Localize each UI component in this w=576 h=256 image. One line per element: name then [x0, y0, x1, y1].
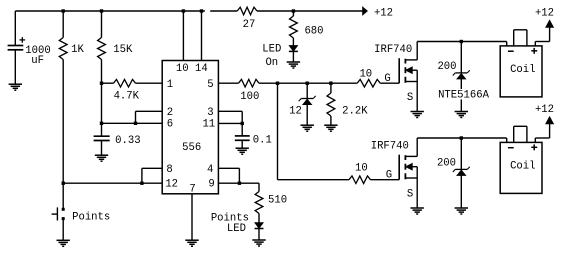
svg-text:7: 7: [189, 183, 195, 195]
junction pin2/pin6 tie: [134, 122, 137, 125]
svg-text:4.7K: 4.7K: [114, 91, 140, 103]
wire +12 supply rail: [15, 10, 363, 12]
junction pin6 / 0.33: [100, 122, 103, 125]
junction on rail at 15K: [100, 9, 103, 12]
wire 4.7K left: [102, 82, 114, 84]
junction on rail at pin10: [182, 9, 185, 12]
svg-text:2.2K: 2.2K: [342, 106, 368, 118]
wire coil 2 + to +12: [535, 124, 549, 143]
junction gate node / zener 12: [306, 82, 309, 85]
svg-text:S: S: [407, 92, 413, 104]
resistor 2.2K: [327, 93, 335, 116]
diode points LED: [255, 223, 264, 229]
wire switch to ground: [62, 220, 64, 240]
resistor 10 (top gate): [357, 79, 380, 87]
resistor 27 (supply): [237, 7, 257, 15]
capacitor 1000uF plus sign: [20, 37, 26, 43]
junction on rail at pin14: [200, 9, 203, 12]
junction drain node top: [460, 40, 463, 43]
svg-text:LED: LED: [262, 44, 281, 56]
svg-text:1K: 1K: [71, 44, 84, 56]
wire Q2 drain: [416, 138, 418, 156]
svg-text:+12: +12: [374, 7, 393, 19]
transistor Q1 IRF740: [399, 58, 417, 83]
junction gate node / lower gate: [276, 82, 279, 85]
wire rail to R 1K: [62, 11, 64, 38]
wire pin 3 strap: [218, 111, 242, 136]
wire points node to switch: [62, 183, 64, 208]
junction drain node lower: [460, 136, 463, 139]
switch points contact lower: [62, 217, 65, 220]
resistor 680: [290, 16, 298, 38]
ground (C1): [9, 84, 22, 90]
wire rail to R 15K: [101, 11, 103, 38]
wire Q1 drain to coil 1: [417, 42, 507, 46]
svg-text:+12: +12: [535, 104, 554, 116]
ground (pin 7): [185, 240, 198, 246]
wire zener 12 to ground: [306, 105, 308, 126]
resistor 510: [255, 192, 263, 214]
ground (LED On): [287, 62, 300, 68]
coil 2 (ignition coil): [500, 126, 542, 193]
svg-text:IRF740: IRF740: [371, 141, 409, 153]
ground (zener 12): [301, 125, 314, 131]
wire pin 14 supply: [201, 11, 203, 61]
wire zener 200 to ground (lower): [460, 175, 462, 208]
svg-text:510: 510: [268, 195, 287, 207]
wire 1K to points node: [62, 60, 64, 184]
svg-text:On: On: [265, 57, 278, 69]
svg-text:Coil: Coil: [510, 64, 535, 76]
svg-text:S: S: [407, 188, 413, 200]
resistor 4.7K: [114, 79, 136, 87]
svg-text:4: 4: [207, 164, 213, 176]
resistor 10 (lower gate): [349, 176, 371, 184]
svg-text:Coil: Coil: [510, 160, 535, 172]
svg-text:5: 5: [207, 79, 213, 91]
wire pin 6: [102, 122, 163, 124]
diode LED On: [289, 46, 298, 52]
ground (Q1 source): [411, 112, 424, 118]
resistor 15K: [98, 38, 106, 60]
svg-text:680: 680: [304, 26, 323, 38]
wire 4.7K to pin 1: [136, 82, 163, 84]
svg-text:G: G: [384, 73, 390, 85]
switch points actuator: [52, 207, 58, 220]
ground (C 0.1): [236, 148, 249, 154]
wire pin 12 to points node: [63, 182, 162, 184]
svg-text:12: 12: [165, 179, 178, 191]
wire node to zener 12: [306, 83, 308, 98]
wire pin 5 out: [218, 82, 238, 84]
svg-text:3: 3: [207, 107, 213, 119]
capacitor 0.33: [94, 136, 110, 140]
node +12 arrow (coil 1): [546, 20, 553, 27]
wire left rail to C1: [14, 11, 16, 46]
wire rail to R 680: [292, 11, 294, 16]
svg-text:100: 100: [240, 91, 259, 103]
resistor 1K: [59, 38, 67, 60]
wire gate node: [259, 82, 357, 84]
zener diode 200 (lower): [453, 167, 470, 176]
svg-text:15K: 15K: [113, 44, 133, 56]
wire drain to zener 200 (top): [460, 42, 462, 73]
wire Q1 drain: [416, 42, 418, 60]
wire C 0.1 to ground: [241, 140, 243, 148]
junction gate node / 2.2K: [329, 82, 332, 85]
wire 10 to gate: [380, 82, 399, 84]
svg-text:1: 1: [167, 79, 173, 91]
svg-text:12: 12: [289, 106, 302, 118]
wire zener 200 to ground (top): [460, 79, 462, 112]
wire pin 2 strap: [136, 111, 163, 123]
capacitor 0.1: [235, 136, 250, 140]
node +12 arrow: [363, 7, 368, 15]
svg-text:200: 200: [437, 61, 456, 73]
wire pin 10 supply: [182, 11, 184, 61]
svg-text:Points: Points: [72, 211, 110, 223]
wire 2.2K to ground: [330, 116, 332, 125]
wire 15K down to pin6 node: [101, 60, 103, 124]
svg-text:G: G: [386, 170, 392, 182]
svg-text:uF: uF: [31, 55, 44, 67]
svg-text:IRF740: IRF740: [374, 44, 412, 56]
wire 10 to gate (lower): [371, 179, 400, 181]
node +12 arrow (coil 2): [546, 117, 553, 124]
wire pin 9: [218, 183, 259, 191]
junction on rail at 1K: [62, 9, 65, 12]
wire gate node to lower gate: [278, 83, 350, 180]
wire coil 1 + to +12: [535, 27, 549, 46]
ground (zener 200 top): [455, 112, 468, 118]
capacitor 1000uF: [8, 46, 24, 50]
resistor 100: [239, 79, 260, 87]
svg-text:556: 556: [182, 142, 201, 154]
wire pin6 node to C 0.33: [101, 123, 103, 136]
junction pin4/pin9 tie: [238, 182, 241, 185]
svg-text:8: 8: [166, 164, 172, 176]
svg-text:LED: LED: [227, 223, 246, 235]
zener diode 200 (top): [453, 70, 470, 79]
wire pin 8 strap: [142, 168, 162, 183]
wire Q2 source to ground: [416, 178, 418, 208]
junction pin8/pin12 tie: [140, 182, 143, 185]
ground (C 0.33): [95, 155, 108, 161]
junction pin3/pin11 tie: [241, 122, 244, 125]
junction 15K / 4.7K node: [100, 82, 103, 85]
wire drain to zener 200 (lower): [460, 138, 462, 169]
op-amp U1 556 box: [162, 61, 218, 194]
wire node to 2.2K: [330, 83, 332, 93]
wire C 0.33 to ground: [101, 141, 103, 156]
svg-text:6: 6: [167, 118, 173, 130]
svg-text:10: 10: [355, 163, 368, 175]
svg-text:11: 11: [202, 118, 215, 130]
wire Q2 drain to coil 2: [417, 138, 507, 142]
svg-text:2: 2: [167, 107, 173, 119]
wire 510 to points LED: [258, 214, 260, 223]
ground (points LED): [252, 240, 265, 246]
wire points LED to ground: [258, 229, 260, 241]
svg-text:NTE5166A: NTE5166A: [438, 90, 490, 102]
wire Q1 source to ground: [416, 82, 418, 112]
svg-text:10 14: 10 14: [176, 63, 208, 75]
svg-text:9: 9: [208, 179, 214, 191]
ground (Q2 source): [411, 208, 424, 214]
label NTE5166A: [437, 89, 492, 102]
switch points contact upper: [62, 208, 65, 211]
svg-text:200: 200: [437, 158, 456, 170]
wire pin 4 strap: [218, 168, 239, 183]
ground (2.2K): [324, 125, 337, 131]
junction on rail at 680: [292, 9, 295, 12]
transistor Q2 IRF740: [399, 155, 417, 180]
zener diode 12V: [299, 96, 316, 105]
coil 1 (ignition coil): [500, 30, 542, 97]
wire C1 to ground: [14, 50, 16, 84]
svg-text:10: 10: [359, 69, 372, 81]
svg-text:0.33: 0.33: [115, 135, 140, 147]
wire pin 11: [218, 122, 242, 124]
wire 680 to LED On: [292, 38, 294, 46]
svg-text:+12: +12: [535, 7, 554, 19]
svg-text:0.1: 0.1: [253, 135, 272, 147]
junction points node: [62, 182, 65, 185]
ground (points switch): [57, 240, 70, 246]
ground (zener 200 lower): [455, 208, 468, 214]
wire pin 7: [191, 194, 193, 240]
wire LED On to ground: [292, 51, 294, 62]
svg-text:27: 27: [243, 19, 256, 31]
